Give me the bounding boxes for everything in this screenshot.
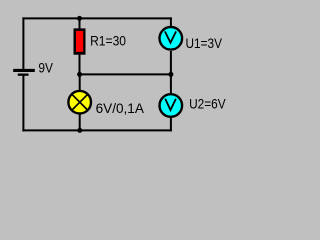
wire lamp bottom lead: [79, 115, 81, 132]
battery B1 short plate (-): [18, 74, 29, 76]
lamp L1 cross stroke 1: [72, 95, 87, 110]
wire left vertical upper (top-left corner to battery +): [22, 17, 24, 69]
svg-text:U2=6V: U2=6V: [189, 95, 226, 111]
wire resistor R1 top lead: [79, 17, 81, 29]
junction dot node B right (U1-U2 tap): [168, 72, 173, 77]
junction dot node A (top, resistor tap): [77, 16, 82, 21]
wire resistor R1 bottom lead: [79, 54, 81, 75]
junction dot node B left (resistor-lamp tap): [77, 72, 82, 77]
voltmeter U1 V glyph: [165, 31, 176, 42]
svg-text:6V/0,1A: 6V/0,1A: [96, 100, 145, 116]
wire middle horizontal (node B): [79, 73, 172, 75]
wire voltmeter U2 top lead: [170, 73, 172, 94]
svg-text:9V: 9V: [38, 59, 53, 75]
wire voltmeter U1 bottom lead: [170, 51, 172, 75]
wire top horizontal (node A): [22, 17, 172, 19]
svg-text:R1=30: R1=30: [90, 33, 126, 49]
battery B1 long plate (+): [13, 69, 35, 72]
wire voltmeter U2 bottom lead: [170, 117, 172, 131]
lamp L1 cross stroke 2: [72, 95, 87, 110]
resistor R1 body: [74, 28, 86, 54]
wire voltmeter U1 top lead: [170, 17, 172, 26]
wire lamp top lead: [79, 73, 81, 90]
voltmeter U2 V glyph: [165, 99, 176, 110]
svg-text:U1=3V: U1=3V: [186, 35, 223, 51]
wire bottom horizontal (node C): [22, 129, 172, 131]
lamp L1 body: [68, 91, 91, 114]
voltmeter U2 body: [160, 94, 183, 117]
voltmeter U1 body: [160, 27, 183, 50]
junction dot node C (lamp bottom tap): [77, 128, 82, 133]
wire left vertical lower (battery - to bottom-left corner): [22, 76, 24, 132]
